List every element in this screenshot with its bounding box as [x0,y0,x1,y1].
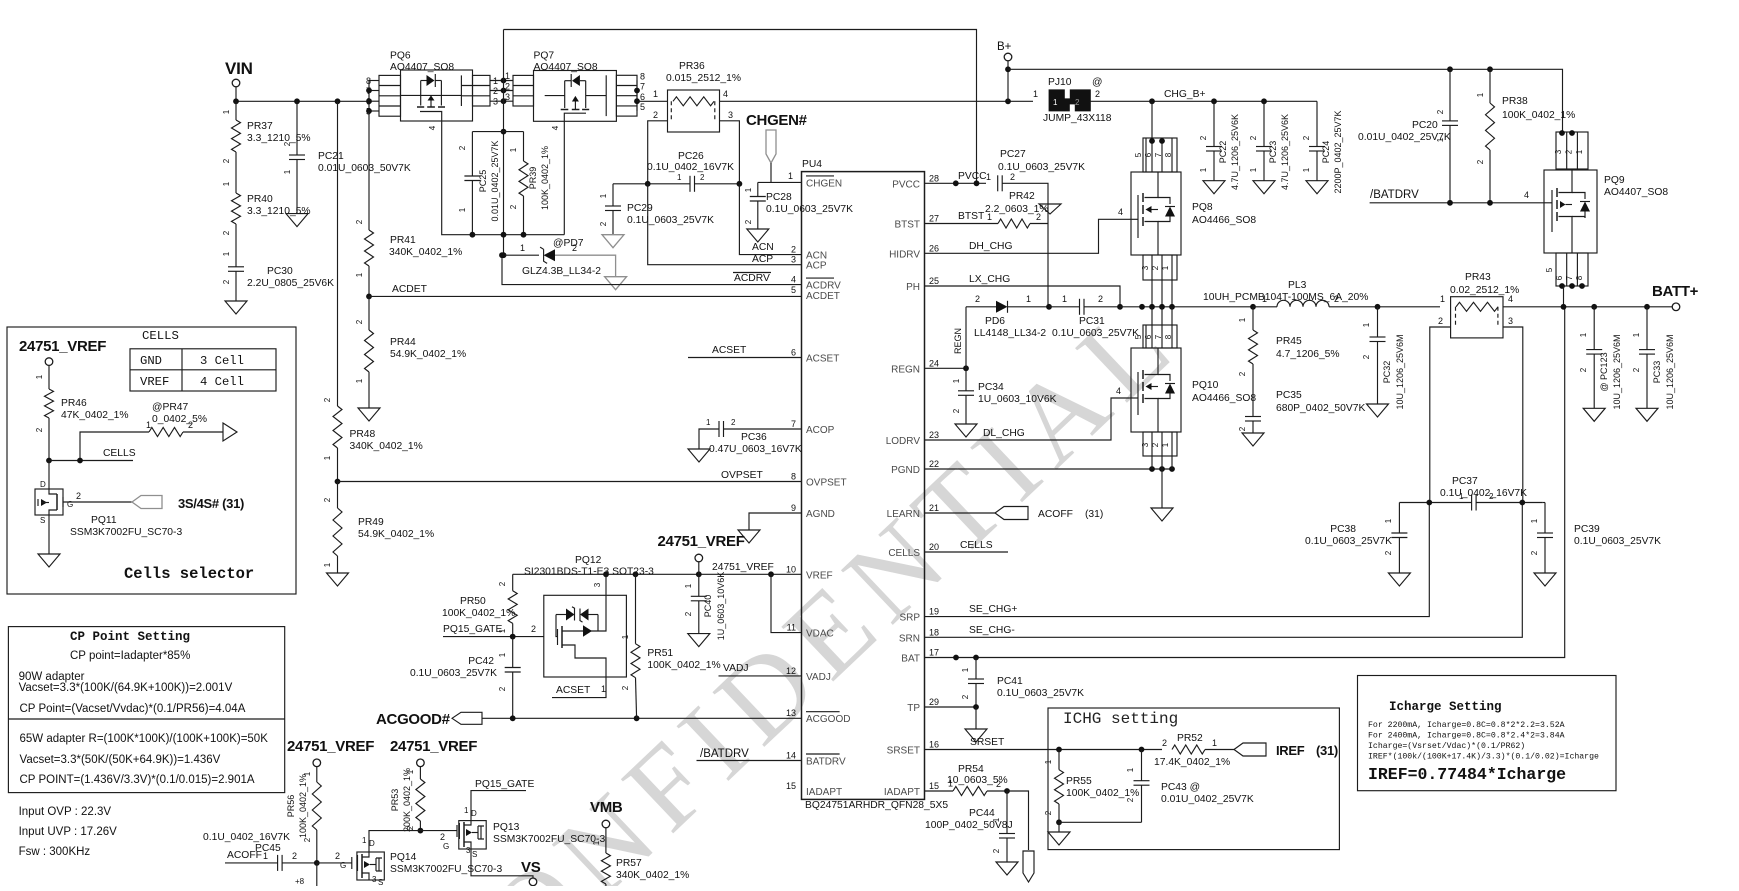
svg-text:0.1U_0402_16V7K: 0.1U_0402_16V7K [203,832,290,843]
svg-text:D: D [471,809,477,818]
svg-text:2: 2 [1565,149,1574,154]
wire PR36 pin3 sense [720,121,740,184]
svg-text:1: 1 [1436,137,1445,142]
svg-text:OVPSET: OVPSET [721,470,763,481]
svg-text:1: 1 [1026,294,1031,304]
ground [738,530,760,543]
wire DH_CHG [925,219,1130,253]
svg-text:2: 2 [509,204,518,209]
resistor PR48 [333,406,342,448]
wire PQ7 drain bus [636,80,638,111]
ground [1534,573,1556,586]
svg-text:PR51: PR51 [647,648,673,659]
svg-text:6: 6 [1144,152,1153,157]
svg-text:@: @ [1092,77,1102,88]
svg-text:0.1U_0402_16V7K: 0.1U_0402_16V7K [647,162,734,173]
svg-text:0.015_2512_1%: 0.015_2512_1% [666,73,741,84]
capacitor PC21 [296,101,298,155]
svg-text:CELLS: CELLS [888,548,920,559]
svg-text:BQ24751ARHDR_QFN28_5X5: BQ24751ARHDR_QFN28_5X5 [805,800,948,811]
diode PD7 [504,254,540,256]
svg-text:5: 5 [791,285,796,295]
svg-text:2: 2 [1489,492,1494,501]
svg-text:100K_0402_1%: 100K_0402_1% [1502,110,1575,121]
wire PQ6-PQ7 rows [490,80,513,82]
wire TP [925,706,977,708]
wire ACSET stub PQ12 [552,677,606,698]
svg-text:PC44: PC44 [969,808,995,819]
svg-text:1: 1 [498,652,507,657]
svg-text:DH_CHG: DH_CHG [969,241,1012,252]
svg-text:4 Cell: 4 Cell [200,375,244,389]
svg-text:3: 3 [1141,442,1150,447]
svg-text:1U_0603_10V6K: 1U_0603_10V6K [978,394,1057,405]
svg-text:4.7U_1206_25V6K: 4.7U_1206_25V6K [1280,114,1290,190]
wire main rail PR36 to B+ [720,100,1034,102]
svg-text:2: 2 [531,624,536,634]
resistor PR46 [48,365,50,389]
svg-text:2: 2 [1162,738,1167,748]
svg-text:PQ15_GATE: PQ15_GATE [443,624,502,635]
svg-text:10: 10 [786,564,796,574]
svg-text:PGND: PGND [891,465,920,476]
svg-text:G: G [443,842,449,851]
svg-text:4: 4 [551,125,560,130]
wire B+ branch bus [1008,69,1563,132]
svg-text:ACGOOD: ACGOOD [806,714,850,725]
svg-text:1: 1 [146,420,151,430]
svg-text:3 Cell: 3 Cell [200,354,244,368]
svg-text:2: 2 [731,418,736,427]
capacitor PC34 [965,368,967,391]
svg-text:2: 2 [222,279,231,284]
svg-text:PC33: PC33 [1652,361,1662,384]
svg-text:2: 2 [458,145,467,150]
svg-text:PQ14: PQ14 [390,852,417,863]
svg-text:PR56: PR56 [286,795,296,818]
svg-text:JUMP_43X118: JUMP_43X118 [1043,113,1112,124]
svg-text:PC36: PC36 [741,432,767,443]
svg-text:8: 8 [366,76,371,86]
svg-text:PR48: PR48 [350,429,376,440]
svg-text:For 2200mA, Icharge=0.8C=0.8*2: For 2200mA, Icharge=0.8C=0.8*2*2.2=3.52A [1368,720,1565,730]
resistor PR53 [419,767,421,779]
svg-text:BATT+: BATT+ [1652,283,1699,300]
svg-text:1: 1 [1579,332,1588,337]
svg-text:IREF=0.77484*Icharge: IREF=0.77484*Icharge [1368,765,1566,784]
svg-text:For 2400mA, Icharge=0.8C=0.8*2: For 2400mA, Icharge=0.8C=0.8*2.4*2=3.84A [1368,731,1565,741]
svg-text:VIN: VIN [225,59,253,78]
svg-text:2: 2 [1436,109,1445,114]
svg-text:13: 13 [786,708,796,718]
svg-text:2: 2 [992,848,1001,853]
resistor PR41 [365,230,374,266]
capacitor PC25 [472,131,523,133]
svg-text:CHG_B+: CHG_B+ [1164,89,1206,100]
svg-text:340K_0402_1%: 340K_0402_1% [350,441,423,452]
svg-text:2: 2 [1151,442,1160,447]
svg-text:IADAPT: IADAPT [806,787,842,798]
svg-text:5: 5 [1134,152,1143,157]
svg-text:2: 2 [1384,550,1393,555]
svg-text:ICHG setting: ICHG setting [1063,710,1178,728]
wire center bus [503,30,505,256]
svg-text:Input OVP : 22.3V: Input OVP : 22.3V [19,806,112,818]
svg-text:1: 1 [505,71,510,81]
svg-text:10U_1206_25V6M: 10U_1206_25V6M [1612,334,1622,409]
ground [605,277,627,290]
svg-text:GND: GND [140,354,162,368]
resistor PR39 [523,132,525,161]
svg-text:GLZ4.3B_LL34-2: GLZ4.3B_LL34-2 [522,266,601,277]
svg-text:2: 2 [76,491,81,501]
resistor PR38 [1489,69,1491,103]
svg-text:TP: TP [907,703,920,714]
svg-text:15: 15 [929,781,939,791]
svg-text:25: 25 [929,276,939,286]
svg-text:Fsw : 300KHz: Fsw : 300KHz [19,846,91,858]
svg-text:6: 6 [1555,275,1564,280]
svg-text:23: 23 [929,430,939,440]
svg-text:1: 1 [1053,98,1058,107]
svg-text:7: 7 [1154,334,1163,339]
svg-text:1: 1 [1575,149,1584,154]
svg-text:2: 2 [975,294,980,304]
svg-text:1: 1 [1440,294,1445,304]
capacitor PC40 [698,574,700,596]
svg-text:PR52: PR52 [1177,733,1203,744]
wire to PQ14 gate [317,862,352,864]
svg-text:10U_1206_25V6M: 10U_1206_25V6M [1395,334,1405,409]
svg-text:S: S [40,516,45,525]
svg-text:PC29: PC29 [627,203,653,214]
wire BTST to phase [1047,224,1049,307]
svg-text:BAT: BAT [901,654,920,665]
svg-text:2: 2 [1075,98,1080,107]
svg-text:G: G [340,861,346,870]
capacitor PC44 [1006,791,1008,834]
ground [286,214,308,227]
svg-text:3: 3 [593,582,602,587]
svg-text:3: 3 [1141,265,1150,270]
svg-text:7: 7 [366,86,371,96]
resistor PR56 [316,767,318,782]
svg-text:PC21: PC21 [318,151,344,162]
wire PR43 pin3 sense [1503,327,1523,503]
svg-text:ACDET: ACDET [806,291,840,302]
svg-text:Icharge=(Vsrset/Vdac)*(0.1/PR6: Icharge=(Vsrset/Vdac)*(0.1/PR62) [1368,741,1525,751]
svg-text:PC35: PC35 [1276,390,1302,401]
resistor PR45 [1252,307,1254,330]
svg-text:CP POINT=(1.436V/3.3V)*(0.1/0.: CP POINT=(1.436V/3.3V)*(0.1/0.015)=2.901… [20,774,255,786]
capacitor PC36 on ACOP [699,429,719,449]
svg-text:2: 2 [1199,135,1208,140]
svg-text:1: 1 [520,243,525,253]
svg-text:1: 1 [323,455,332,460]
diode PD6 [966,306,996,308]
svg-text:29: 29 [929,697,939,707]
svg-text:2: 2 [653,110,658,120]
svg-text:IREF*(100k/(100K+17.4K)/3.3)*(: IREF*(100k/(100K+17.4K)/3.3)*(0.1/0.02)=… [1368,752,1599,762]
wire OVPSET node [337,448,339,482]
svg-text:PU4: PU4 [802,159,822,170]
wire CELLS stub [925,551,1009,553]
wire /BATDRV [1370,202,1544,204]
capacitor PC41 [975,658,977,680]
svg-text:PR45: PR45 [1276,336,1302,347]
svg-text:9: 9 [791,503,796,513]
wire PQ7 pin4 gate [563,121,565,234]
svg-text:6: 6 [640,92,645,102]
svg-text:2: 2 [440,832,445,842]
svg-text:PC42: PC42 [468,656,494,667]
svg-text:10UH_PCMB104T-100MS_6A_20%: 10UH_PCMB104T-100MS_6A_20% [1203,292,1368,303]
svg-text:Vacset=3.3*(50K/(50K+64.9K))=1: Vacset=3.3*(50K/(50K+64.9K))=1.436V [20,754,221,766]
svg-text:PQ6: PQ6 [390,51,411,62]
svg-text:24: 24 [929,358,939,368]
node 3S/4S# flag [132,496,162,509]
ground [1242,433,1264,446]
svg-text:1: 1 [601,684,606,694]
svg-text:17.4K_0402_1%: 17.4K_0402_1% [1154,757,1230,768]
wire main rail to PR36 [637,100,668,102]
svg-text:100K_0402_1%: 100K_0402_1% [647,660,720,671]
svg-text:2: 2 [791,245,796,255]
wire B+ down [1007,61,1009,101]
svg-text:2: 2 [498,686,507,691]
svg-text:PR55: PR55 [1066,776,1092,787]
svg-text:REGN: REGN [953,328,963,354]
svg-text:SE_CHG-: SE_CHG- [969,625,1015,636]
svg-text:1: 1 [283,169,292,174]
svg-text:1: 1 [1238,317,1247,322]
svg-text:PR42: PR42 [1009,191,1035,202]
resistor PR37 [235,101,237,120]
svg-text:PR37: PR37 [247,121,273,132]
wire PR55 PC43 bottom [1059,821,1142,823]
svg-text:ACOP: ACOP [806,425,835,436]
svg-text:100K_0402_1%: 100K_0402_1% [442,608,515,619]
svg-text:2: 2 [292,851,297,861]
svg-text:PR46: PR46 [61,398,87,409]
wire ACGOOD row [482,717,802,719]
svg-text:0.1U_0603_25V7K: 0.1U_0603_25V7K [1574,536,1661,547]
capacitor PC33 [1646,307,1648,350]
svg-text:VADJ: VADJ [806,672,831,683]
svg-text:0.01U_0402_25V7K: 0.01U_0402_25V7K [490,140,500,221]
svg-text:16: 16 [929,740,939,750]
svg-text:/BATDRV: /BATDRV [700,748,749,760]
wire PQ13 drain PQ15_GATE [471,791,526,821]
ground [38,554,60,567]
resistor PR57 [605,828,607,853]
svg-text:PL3: PL3 [1288,280,1307,291]
wire VIN to PR48 [337,101,339,406]
svg-text:PC23: PC23 [1268,141,1278,164]
wire BAT row [925,307,1565,658]
svg-text:2: 2 [1362,354,1371,359]
ground [602,235,624,248]
svg-text:SRSET: SRSET [970,737,1005,748]
svg-text:DL_CHG: DL_CHG [983,428,1025,439]
wire OVPSET row [338,481,802,483]
box CP Point Setting [8,627,284,793]
ground [337,556,339,573]
svg-text:2: 2 [1476,159,1485,164]
resistor PR40 [235,152,237,193]
wire PR43 pin2 sense [1430,327,1451,503]
node IREF flag [1234,743,1266,756]
svg-text:65W adapter R=(100K*100K)/(10: 65W adapter R=(100K*100K)/(100K+100K)=50… [20,733,269,745]
svg-text:7: 7 [791,419,796,429]
svg-text:PR43: PR43 [1465,272,1491,283]
ground [225,301,247,314]
svg-text:PC28: PC28 [766,192,792,203]
svg-text:1: 1 [1384,518,1393,523]
resistor PR55 [1058,750,1060,770]
svg-text:PR54: PR54 [958,764,984,775]
svg-text:IADAPT: IADAPT [884,787,920,798]
capacitor PC29 [612,184,614,206]
svg-text:PC39: PC39 [1574,524,1600,535]
svg-text:20: 20 [929,542,939,552]
svg-text:S: S [472,850,477,859]
svg-text:2: 2 [1579,367,1588,372]
wire VIN to PR41 [368,111,370,230]
svg-text:2: 2 [505,82,510,92]
svg-text:SSM3K7002FU_SC70-3: SSM3K7002FU_SC70-3 [493,834,605,845]
svg-text:SE_CHG+: SE_CHG+ [969,604,1017,615]
capacitor PC35 [1245,416,1261,418]
wire LEARN [925,512,996,514]
svg-text:3: 3 [728,110,733,120]
wire ACN from PR36 [739,184,801,255]
svg-text:1: 1 [355,272,364,277]
node CELLS [46,458,52,464]
svg-text:1: 1 [1476,92,1485,97]
capacitor PC31 [1046,304,1052,310]
svg-text:CHGEN#: CHGEN# [746,112,808,129]
capacitor PC22 [1213,101,1215,146]
svg-text:8: 8 [1164,152,1173,157]
svg-text:1: 1 [362,836,367,845]
svg-text:BTST: BTST [894,220,920,231]
wire AGND [749,513,802,530]
svg-text:1: 1 [1126,767,1135,772]
svg-text:2: 2 [406,825,415,830]
svg-text:10U_1206_25V6M: 10U_1206_25V6M [1665,334,1675,409]
svg-text:0_0402_5%: 0_0402_5% [152,414,207,425]
svg-text:2: 2 [961,694,970,699]
svg-text:5: 5 [366,107,371,117]
svg-text:2: 2 [1334,294,1339,304]
svg-text:26: 26 [929,243,939,253]
svg-text:AO4407_SO8: AO4407_SO8 [534,62,598,73]
svg-text:SRSET: SRSET [887,746,920,757]
svg-text:3: 3 [1554,149,1563,154]
svg-text:4.7_1206_5%: 4.7_1206_5% [1276,349,1340,360]
svg-text:PC34: PC34 [978,382,1004,393]
wire BATT+ rail [1329,306,1440,308]
ground [1253,181,1275,194]
svg-text:PR39: PR39 [528,167,538,190]
svg-text:CELLS: CELLS [142,329,179,343]
svg-text:@ PC123: @ PC123 [1599,352,1609,391]
svg-text:54.9K_0402_1%: 54.9K_0402_1% [390,349,466,360]
svg-text:PVCC: PVCC [958,171,987,182]
svg-text:PR53: PR53 [390,789,400,812]
svg-text:2: 2 [1095,89,1100,99]
box ICHG setting [1048,708,1339,850]
resistor PR50 [512,574,514,591]
svg-text:18: 18 [929,627,939,637]
wire IADAPT PR54 [925,790,954,792]
svg-text:7: 7 [640,82,645,92]
svg-text:3S/4S# (31): 3S/4S# (31) [178,496,244,511]
ground [1058,822,1060,832]
svg-text:1: 1 [1362,322,1371,327]
ground [1161,469,1163,508]
svg-text:REGN: REGN [891,364,920,375]
svg-text:PD6: PD6 [985,316,1005,327]
svg-text:200K_0402_1%: 200K_0402_1% [402,768,412,832]
svg-text:1: 1 [599,193,608,198]
wire SRN SE_CHG- [925,503,1523,638]
svg-text:1: 1 [653,89,658,99]
svg-text:ACSET: ACSET [556,685,591,696]
svg-text:1: 1 [406,769,415,774]
svg-text:8: 8 [1575,275,1584,280]
wire PQ6 pin4 gate [442,121,565,235]
svg-text:4: 4 [791,275,796,285]
svg-text:2: 2 [222,158,231,163]
wire top bus [504,30,977,184]
svg-text:2: 2 [355,219,364,224]
wire VREF row [513,573,802,575]
svg-text:54.9K_0402_1%: 54.9K_0402_1% [358,529,434,540]
svg-text:1: 1 [788,171,793,181]
svg-text:(31): (31) [1085,509,1103,520]
ground [688,449,710,462]
svg-text:0.1U_0603_25V7K: 0.1U_0603_25V7K [997,688,1084,699]
svg-text:0.01U_0603_50V7K: 0.01U_0603_50V7K [318,163,411,174]
svg-text:PQ9: PQ9 [1604,175,1625,186]
svg-text:4: 4 [723,89,728,99]
capacitor PC42 [512,637,514,668]
svg-text:PQ10: PQ10 [1192,380,1219,391]
svg-text:SRP: SRP [899,613,920,624]
svg-text:CP Point=(Vacset/Vvdac)*(0.1/P: CP Point=(Vacset/Vvdac)*(0.1/PR56)=4.04A [20,703,246,715]
svg-text:PR50: PR50 [460,596,486,607]
svg-text:4: 4 [428,125,437,130]
svg-text:6: 6 [1144,334,1153,339]
svg-text:1: 1 [1459,492,1464,501]
svg-text:ACP: ACP [752,254,773,265]
svg-text:8: 8 [791,472,796,482]
svg-text:4: 4 [1508,294,1513,304]
wire BTST [925,223,999,225]
wire VIN to rail [235,87,237,101]
wire VDAC branch [771,574,802,632]
svg-text:CP point=Iadapter*85%: CP point=Iadapter*85% [70,650,190,662]
svg-text:CELLS: CELLS [103,448,136,459]
svg-text:LX_CHG: LX_CHG [969,274,1010,285]
svg-text:47K_0402_1%: 47K_0402_1% [61,410,129,421]
svg-text:100K_0402_1%: 100K_0402_1% [298,774,308,838]
svg-text:CELLS: CELLS [960,540,993,551]
svg-text:LODRV: LODRV [886,436,921,447]
svg-text:PC32: PC32 [1382,361,1392,384]
